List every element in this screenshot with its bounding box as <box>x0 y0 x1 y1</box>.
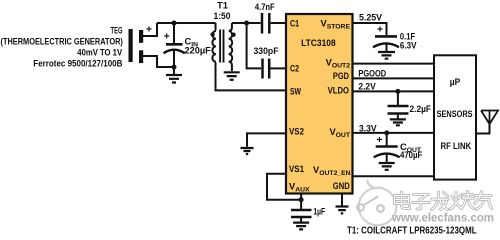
svg-text:2.2µF: 2.2µF <box>410 104 432 114</box>
svg-text:330pF: 330pF <box>254 46 279 56</box>
char dian outline <box>395 192 410 209</box>
wire junction down to 330pF <box>247 23 261 68</box>
transformer phase dot secondary <box>231 33 235 37</box>
svg-text:470µF: 470µF <box>400 150 423 160</box>
capacitor 0.1F 6.3V (polarized) <box>373 36 399 51</box>
svg-text:1:50: 1:50 <box>214 11 231 21</box>
char zi outline <box>413 195 430 210</box>
svg-text:LTC3108: LTC3108 <box>301 38 336 48</box>
ground at GND pin <box>336 207 349 214</box>
TEG label text <box>1 26 123 69</box>
svg-text:T1: T1 <box>217 0 228 10</box>
svg-text:4.7nF: 4.7nF <box>255 2 275 12</box>
svg-text:C2: C2 <box>290 63 299 73</box>
svg-text:VLDO: VLDO <box>328 86 349 96</box>
TEG (thermoelectric generator) symbol <box>129 29 144 63</box>
svg-text:+: + <box>146 25 152 36</box>
svg-text:SW: SW <box>290 87 301 97</box>
svg-text:C1: C1 <box>290 19 299 29</box>
capacitor 330pF to C2 <box>263 59 287 79</box>
svg-text:www.elecfans.com: www.elecfans.com <box>391 213 494 225</box>
svg-text:2.2V: 2.2V <box>358 82 376 92</box>
char you outline <box>475 192 493 210</box>
svg-text:+: + <box>377 24 383 35</box>
svg-text:6.3V: 6.3V <box>400 40 417 50</box>
svg-text:+: + <box>376 135 382 146</box>
svg-text:SENSORS: SENSORS <box>437 109 473 119</box>
wire PGD to microprocessor <box>353 77 435 79</box>
wire VOUT2 to microprocessor <box>353 63 435 65</box>
svg-text:40mV TO 1V: 40mV TO 1V <box>77 48 122 58</box>
antenna <box>481 111 498 125</box>
node junction dot CIN bottom <box>172 65 177 70</box>
capacitor 1uF <box>291 210 312 222</box>
char fa outline <box>432 192 449 210</box>
wire TEG to top rail and bottom rail <box>143 23 174 67</box>
svg-text:GND: GND <box>333 181 350 191</box>
svg-text:T1: COILCRAFT LPR6235-123QML: T1: COILCRAFT LPR6235-123QML <box>347 225 477 235</box>
capacitor CIN 220uF (polarized) <box>164 23 185 67</box>
char zi core <box>413 195 430 210</box>
op-amp U1 LTC3108 IC body <box>286 14 353 194</box>
ground below 1uF <box>293 223 309 230</box>
microprocessor block <box>434 55 476 179</box>
svg-text:TEG: TEG <box>111 26 123 36</box>
wire VOUT2_EN to microprocessor <box>353 175 435 177</box>
svg-text:220µF: 220µF <box>185 46 212 56</box>
ground below transformer secondary <box>224 72 240 80</box>
capacitor COUT 470uF (polarized) <box>374 133 400 162</box>
svg-text:5.25V: 5.25V <box>359 12 383 22</box>
ground below storage cap <box>378 52 395 59</box>
ground below COUT <box>379 163 395 170</box>
wire VLDO to microprocessor <box>353 90 435 92</box>
ground below CIN <box>166 67 182 83</box>
wire VSTORE to storage cap <box>353 23 387 35</box>
wire top rail <box>157 22 216 24</box>
transformer T1 primary winding <box>212 23 286 90</box>
wire to antenna <box>476 124 490 134</box>
node junction dot VLDO <box>395 89 400 94</box>
COUT value label <box>400 142 423 160</box>
capacitor 2.2uF <box>388 91 409 118</box>
char fa core <box>432 192 449 210</box>
transformer T1 label <box>214 0 231 21</box>
svg-text:µP: µP <box>450 77 461 87</box>
svg-text:PGOOD: PGOOD <box>358 68 386 78</box>
char dian core <box>395 192 410 209</box>
wire VS1 loop to VAUX <box>267 174 301 200</box>
svg-text:Ferrotec 9500/127/100B: Ferrotec 9500/127/100B <box>33 59 122 69</box>
svg-text:3.3V: 3.3V <box>359 123 377 133</box>
wire VOUT to microprocessor <box>353 132 435 134</box>
ground below 2.2uF <box>390 119 406 125</box>
transformer T1 core <box>220 30 223 63</box>
watermark logo <box>357 180 396 226</box>
0.1F 6.3V value label <box>400 31 417 50</box>
node junction dot VOUT <box>384 130 389 135</box>
transformer T1 secondary winding <box>229 23 233 71</box>
node junction dot VAUX <box>299 197 304 202</box>
char shao outline <box>451 192 474 210</box>
svg-text:RF LINK: RF LINK <box>441 141 472 151</box>
watermark text dianzifashaoyou <box>395 192 493 210</box>
node junction dot secondary/caps <box>244 21 249 26</box>
svg-text:+: + <box>164 32 170 43</box>
svg-text:(THERMOELECTRIC GENERATOR): (THERMOELECTRIC GENERATOR) <box>1 37 123 47</box>
node junction dot CIN top <box>172 21 177 26</box>
transformer phase dot primary <box>210 32 214 36</box>
wire VAUX down <box>300 194 302 210</box>
ground at VS2 <box>241 148 254 154</box>
wire secondary top to junction <box>232 22 247 24</box>
wire GND pin to ground <box>341 194 343 206</box>
char shao core <box>451 192 474 210</box>
svg-text:PGD: PGD <box>333 71 349 81</box>
char you core <box>475 192 493 210</box>
svg-text:1µF: 1µF <box>313 207 325 217</box>
wire VS2 to ground <box>247 133 286 146</box>
svg-text:VS2: VS2 <box>289 127 304 137</box>
capacitor 4.7nF to C1 <box>247 13 286 34</box>
svg-text:VS1: VS1 <box>289 164 304 174</box>
CIN value label <box>185 37 212 56</box>
